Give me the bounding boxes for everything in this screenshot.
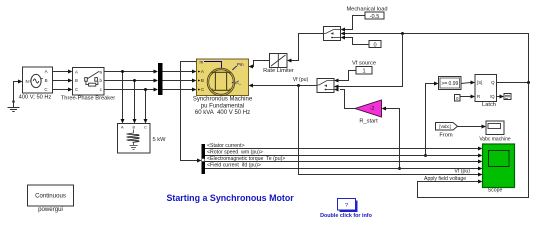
svg-text:B: B bbox=[201, 78, 204, 83]
svg-text:Starting a Synchronous Motor: Starting a Synchronous Motor bbox=[167, 193, 295, 203]
wire latch Q output bbox=[497, 82, 529, 84]
wire phase c bar to machine C bbox=[163, 89, 193, 91]
svg-text:R: R bbox=[477, 94, 480, 99]
svg-text:-2: -2 bbox=[370, 106, 375, 112]
wire phase b breaker to bus bar bbox=[104, 80, 154, 82]
svg-text:C: C bbox=[201, 87, 204, 92]
bus selector bbox=[202, 144, 206, 174]
wire Vf source to switch Sw2 bbox=[339, 71, 357, 81]
wire phase B source to breaker bbox=[53, 80, 69, 82]
wire tap phase b to load B bbox=[134, 81, 136, 120]
wire From to Vabc display bbox=[458, 126, 483, 128]
svg-text:A: A bbox=[45, 69, 48, 74]
arrow into source N port bbox=[18, 80, 23, 84]
info block ? bbox=[320, 199, 373, 219]
From tag [Vabc] bbox=[436, 123, 458, 139]
wire phase A source to breaker bbox=[53, 71, 69, 73]
Three-Phase Breaker bbox=[61, 68, 115, 102]
svg-text:From: From bbox=[439, 133, 453, 139]
svg-text:C: C bbox=[44, 87, 47, 92]
svg-text:Continuous: Continuous bbox=[35, 193, 66, 200]
wire constant to latch R bbox=[460, 96, 471, 98]
wire ifd branch to gain input bbox=[386, 109, 400, 169]
latch U1 bbox=[475, 75, 497, 109]
svg-text:60 kVA 400 V 50 Hz: 60 kVA 400 V 50 Hz bbox=[195, 110, 250, 116]
svg-text:<Field current ifd (pu)>: <Field current ifd (pu)> bbox=[207, 163, 261, 169]
svg-text:-0.5: -0.5 bbox=[370, 14, 380, 20]
bus bar node bbox=[158, 63, 163, 95]
Rate Limiter bbox=[263, 54, 294, 75]
wire field current to scope input 4 bbox=[205, 168, 478, 170]
svg-text:A: A bbox=[75, 70, 78, 75]
wire Vf switch Sw2 to machine Vf bbox=[253, 85, 317, 87]
arrows into switch Sw1 bbox=[341, 28, 346, 32]
svg-text:Scope: Scope bbox=[488, 188, 503, 194]
wire torque to scope input 3 bbox=[205, 161, 478, 163]
scope bbox=[483, 144, 515, 194]
wire Vf to scope input 5 bbox=[299, 86, 479, 175]
wire latch notQ to terminator bbox=[497, 96, 501, 98]
svg-text:pu Fundamental: pu Fundamental bbox=[201, 103, 244, 109]
svg-text:<Stator current>: <Stator current> bbox=[207, 143, 245, 149]
synchronous machine SM 60 kVA bbox=[193, 59, 253, 116]
svg-text:>= 0.99: >= 0.99 bbox=[441, 81, 458, 87]
gain R_start -2 bbox=[355, 100, 382, 117]
wire constant 0 to switch Sw1 bbox=[345, 38, 369, 45]
svg-text:Three-Phase Breaker: Three-Phase Breaker bbox=[61, 96, 115, 102]
wire wm branch to compare input bbox=[426, 84, 435, 156]
wire control branch to switch Sw2 bbox=[339, 34, 403, 87]
svg-text:Vf_: Vf_ bbox=[235, 80, 242, 85]
wire compare out to latch S bbox=[461, 83, 471, 84]
svg-text:<Electromagnetic torque Te (p: <Electromagnetic torque Te (pu)> bbox=[207, 156, 285, 162]
svg-text:Double click for info: Double click for info bbox=[320, 213, 373, 219]
junction ifd branch bbox=[398, 167, 401, 170]
wire phase c breaker to bus bar bbox=[104, 89, 154, 91]
three-phase load 5 kW bbox=[118, 124, 167, 154]
junction node Vf bbox=[297, 84, 300, 87]
svg-text:400 V; 50 Hz: 400 V; 50 Hz bbox=[19, 95, 52, 101]
svg-text:Synchronous Machine: Synchronous Machine bbox=[193, 97, 253, 103]
switch Sw2 field voltage (mirrored) bbox=[317, 79, 334, 93]
svg-text:Latch: Latch bbox=[482, 102, 496, 108]
wire rotor speed to scope input 2 bbox=[205, 155, 478, 157]
wire gain out to switch Sw2 bbox=[340, 90, 355, 109]
svg-text:Vabc machine: Vabc machine bbox=[479, 136, 511, 142]
svg-text:B: B bbox=[75, 78, 78, 83]
wire source N to ground bbox=[14, 82, 22, 108]
arrow scope input 5 bbox=[478, 173, 483, 177]
svg-text:m: m bbox=[200, 60, 204, 65]
ground symbol bbox=[8, 100, 20, 111]
svg-text:C: C bbox=[144, 126, 147, 130]
svg-text:[S]: [S] bbox=[477, 80, 482, 85]
wire phase b bar to machine B bbox=[163, 80, 193, 82]
constant 0 into latch R bbox=[455, 95, 461, 102]
svg-text:Vf (pu): Vf (pu) bbox=[454, 169, 470, 175]
svg-text:Vf (pu): Vf (pu) bbox=[293, 77, 309, 83]
junction latch Q bbox=[527, 81, 530, 84]
AC voltage source 400 V; 50 Hz bbox=[19, 67, 53, 101]
svg-text:Apply field voltage: Apply field voltage bbox=[424, 176, 466, 182]
wire rate limiter out to machine Pm bbox=[252, 61, 270, 67]
constant 0 bbox=[369, 41, 381, 48]
powergui block bbox=[28, 185, 74, 213]
svg-text:A: A bbox=[201, 69, 204, 74]
wire tap phase c to load C bbox=[145, 90, 147, 120]
svg-text:1: 1 bbox=[362, 69, 365, 75]
svg-text:powergui: powergui bbox=[38, 206, 63, 213]
svg-text:0: 0 bbox=[373, 43, 376, 49]
wire phase C source to breaker bbox=[53, 89, 69, 91]
svg-text:C: C bbox=[75, 87, 78, 92]
svg-text:N: N bbox=[26, 79, 29, 84]
wire apply field voltage to scope input 6 bbox=[418, 83, 529, 198]
compare block >= 0.99 bbox=[439, 77, 462, 90]
svg-text:Pm: Pm bbox=[237, 62, 244, 67]
svg-text:<Rotor speed wm (pu)>: <Rotor speed wm (pu)> bbox=[207, 150, 263, 156]
wire phase a bar to machine A bbox=[163, 71, 193, 73]
wire latch Q to switch controls bbox=[345, 34, 529, 83]
wire constant -0.5 to switch Sw1 bbox=[345, 16, 365, 30]
wire stator current to scope input 1 bbox=[205, 148, 478, 150]
svg-text:Vf source: Vf source bbox=[352, 61, 376, 67]
terminator bbox=[504, 94, 511, 100]
svg-text:Q: Q bbox=[491, 80, 495, 85]
wire machine m to bus selector bbox=[181, 62, 198, 161]
wire tap phase a to load A bbox=[122, 72, 124, 120]
svg-text:B: B bbox=[45, 78, 48, 83]
switch Sw1 mechanical load (mirrored) bbox=[324, 27, 341, 41]
svg-text:Rate Limiter: Rate Limiter bbox=[263, 68, 294, 74]
junction wm branch bbox=[424, 154, 427, 157]
junction control branch bbox=[401, 32, 404, 35]
svg-text:R_start: R_start bbox=[359, 119, 378, 125]
arrows into switch Sw2 bbox=[334, 79, 339, 83]
display Vabc machine bbox=[479, 121, 511, 142]
svg-text:!Q: !Q bbox=[490, 94, 495, 99]
svg-text:[Vabc]: [Vabc] bbox=[439, 124, 451, 129]
wire phase a breaker to bus bar bbox=[104, 71, 154, 73]
wire switch1 out to rate limiter bbox=[292, 34, 324, 61]
svg-text:5 kW: 5 kW bbox=[153, 137, 167, 143]
